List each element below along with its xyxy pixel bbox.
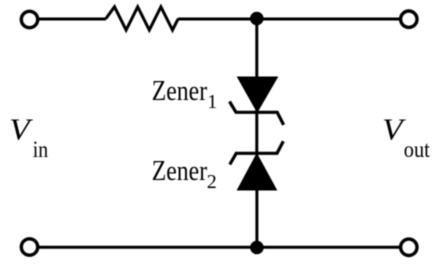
terminal: top-right output	[401, 11, 417, 27]
svg-text:out: out	[404, 137, 431, 162]
wire: bottom junction to bottom-right terminal	[257, 246, 401, 249]
svg-text:Zener: Zener	[152, 76, 208, 107]
wire: top-left terminal to resistor	[38, 18, 106, 21]
wire: bottom-left terminal to bottom junction	[38, 246, 257, 249]
svg-text:2: 2	[207, 171, 217, 193]
svg-text:V: V	[382, 112, 406, 147]
resistor R	[106, 7, 178, 30]
svg-text:V: V	[9, 111, 33, 146]
wire: top junction to top-right terminal	[257, 18, 401, 21]
svg-text:1: 1	[207, 91, 217, 113]
svg-text:Zener: Zener	[152, 156, 208, 187]
zener diode Zener1 (cathode down)	[230, 77, 284, 125]
junction: top node	[250, 12, 264, 26]
wire: Zener2 down to bottom junction	[255, 188, 258, 248]
svg-text:in: in	[33, 137, 49, 162]
wire: Zener1 to Zener2	[255, 110, 258, 155]
wire: resistor to top junction	[178, 18, 257, 21]
wire: top junction down to Zener1	[255, 19, 258, 78]
zener diode Zener2 (cathode up)	[230, 141, 283, 190]
terminal: bottom-left	[21, 239, 37, 255]
junction: bottom node	[250, 241, 264, 255]
terminal: top-left input	[21, 11, 37, 27]
terminal: bottom-right	[401, 239, 417, 255]
